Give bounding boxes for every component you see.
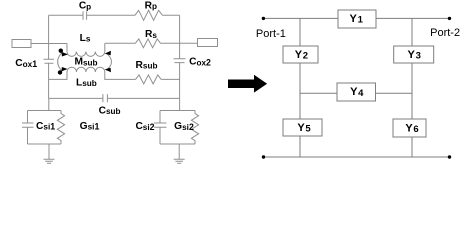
svg-text:Port-2: Port-2 (430, 27, 460, 39)
svg-text:Y2: Y2 (295, 49, 308, 62)
capacitor Csub (103, 94, 108, 102)
coupling dot top (59, 49, 63, 53)
big transform arrow (228, 75, 267, 93)
wire Csi2 pair bottom (160, 143, 195, 145)
box Y2 (283, 46, 318, 63)
box Y4 (337, 83, 376, 101)
resistor Gsi1 (57, 111, 64, 145)
wire top branch left segment (49, 14, 83, 16)
coupling arc right (106, 53, 112, 70)
box Y5 (283, 119, 322, 136)
svg-text:Y1: Y1 (350, 13, 364, 26)
wire bottom (264, 156, 450, 158)
coupling arrowhead left top (62, 52, 69, 57)
svg-text:Csub: Csub (99, 105, 121, 116)
svg-text:Gsi2: Gsi2 (174, 121, 194, 132)
coupling arrowhead right bottom (105, 68, 111, 72)
inductor Lsub (67, 67, 105, 72)
capacitor Cp (83, 11, 87, 20)
coupling arrowhead left bottom (62, 67, 68, 71)
ground symbol 2 (174, 159, 185, 163)
resistor Rs (135, 39, 160, 48)
wire Rs to node B (161, 42, 180, 44)
svg-text:Rs: Rs (145, 29, 157, 40)
resistor Rp (135, 10, 163, 20)
wire feed to Csi1 pair (48, 98, 50, 110)
svg-text:Rp: Rp (145, 0, 157, 11)
coupling arrowhead right top (105, 51, 111, 55)
capacitor Csi1 (22, 123, 34, 127)
wire Lsub left jog (49, 72, 67, 79)
wire right rail upper (179, 15, 181, 59)
capacitor Csi2 (154, 123, 167, 127)
wire left rail (299, 18, 301, 157)
svg-text:Y4: Y4 (350, 86, 364, 99)
wire top left (264, 17, 339, 19)
port terminal box P2 (198, 39, 218, 47)
coupling dot bottom (58, 70, 62, 74)
svg-text:Msub: Msub (74, 57, 97, 68)
inductor Ls (67, 52, 105, 57)
wire Rsub to right rail (161, 78, 179, 80)
svg-text:Csi1: Csi1 (36, 121, 55, 132)
node dot bottom-right (448, 155, 451, 158)
node dot bottom-left (262, 155, 265, 158)
box Y6 (393, 119, 426, 137)
wire port1 to node A (31, 43, 67, 45)
node dot top-right (448, 17, 451, 20)
capacitor Cox2 (174, 59, 186, 63)
svg-text:Cox1: Cox1 (15, 58, 37, 69)
wire ground stub 2 (178, 144, 180, 159)
svg-text:Y3: Y3 (408, 49, 421, 62)
wire bottom rail left (49, 97, 103, 99)
svg-text:Cox2: Cox2 (189, 57, 211, 68)
node dot top-left (262, 17, 265, 20)
wire jog down to Ls (66, 44, 68, 52)
wire Csi1 pair top (28, 110, 62, 112)
wire top branch middle segment (87, 14, 135, 16)
svg-text:Rsub: Rsub (136, 60, 158, 71)
box Y1 (338, 10, 376, 28)
svg-text:Y6: Y6 (405, 123, 418, 136)
wire top right (376, 17, 450, 19)
wire feed to Csi2 pair (179, 98, 181, 110)
wire left rail lower (48, 63, 50, 98)
wire Csi2 left branch upper (159, 111, 161, 124)
wire right rail (411, 18, 413, 157)
box Y3 (394, 46, 434, 63)
wire middle right (376, 92, 413, 94)
wire node B to port2 (180, 42, 198, 44)
wire Csi2 left branch lower (159, 127, 161, 144)
svg-text:Y5: Y5 (297, 122, 311, 135)
svg-text:Port-1: Port-1 (256, 28, 286, 40)
wire bottom rail right (107, 97, 179, 99)
capacitor Cox1 (44, 59, 55, 63)
resistor Rsub (136, 75, 162, 84)
svg-text:Lsub: Lsub (76, 77, 97, 88)
svg-text:Ls: Ls (80, 33, 91, 44)
wire Csi1 left branch lower (27, 127, 29, 144)
svg-text:Csi2: Csi2 (135, 121, 154, 132)
wire ground stub 1 (48, 144, 50, 159)
svg-text:Cp: Cp (79, 1, 91, 12)
svg-text:Gsi1: Gsi1 (80, 121, 100, 132)
wire jog up from Ls (104, 43, 106, 51)
coupling arc left (58, 52, 63, 71)
wire top branch right segment (163, 14, 180, 16)
port terminal box P1 (12, 40, 31, 48)
ground symbol 1 (44, 159, 55, 163)
wire right rail lower (179, 63, 181, 99)
wire Csi1 pair bottom (28, 143, 62, 145)
wire Lsub right jog (105, 72, 136, 79)
wire Csi2 pair top (160, 110, 195, 112)
wire Ls to Rs (105, 42, 136, 44)
wire Csi1 left branch upper (27, 111, 29, 124)
wire left rail upper (48, 15, 50, 59)
wire middle left (300, 92, 337, 94)
resistor Gsi2 (191, 111, 198, 145)
